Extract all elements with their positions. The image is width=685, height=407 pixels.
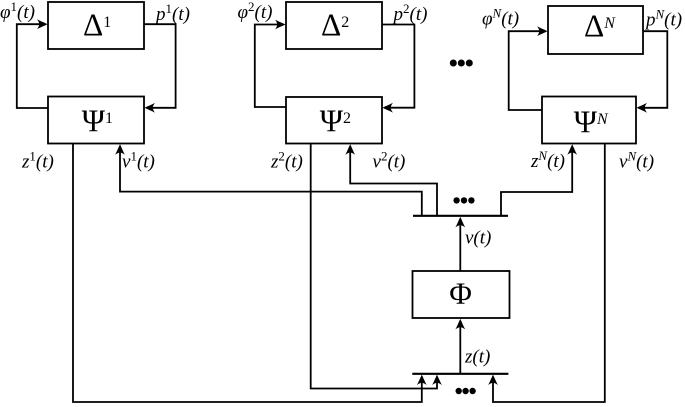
block Phi bbox=[413, 271, 510, 318]
svg-text:φ2(t): φ2(t) bbox=[238, 0, 273, 23]
label phi1(t) bbox=[0, 0, 35, 23]
label Psi1 bbox=[82, 104, 113, 139]
block Psi2 bbox=[286, 97, 382, 144]
label pN(t) bbox=[644, 7, 682, 31]
wire v2 (v-bar leg to Psi2 bottom input) bbox=[350, 150, 437, 216]
wire p1 feedback (Delta1 output to Psi1 right) bbox=[144, 24, 176, 108]
svg-text:v(t): v(t) bbox=[465, 228, 491, 249]
dots above v-bar bbox=[453, 197, 474, 203]
svg-text:Φ: Φ bbox=[449, 275, 472, 310]
arrowhead into DeltaN bbox=[537, 26, 548, 36]
arrowhead z2 into z-bus bbox=[432, 375, 442, 386]
label Delta1 bbox=[83, 8, 111, 43]
wire v(t) (Phi output up to v-bar) bbox=[459, 223, 461, 271]
wire p2 feedback (Delta2 output to Psi2 right) bbox=[382, 25, 414, 108]
arrowhead zN into z-bus bbox=[488, 375, 498, 386]
arrowhead into Delta1 bbox=[37, 19, 48, 29]
arrowhead into Psi2 right bbox=[383, 103, 394, 113]
arrowhead vN into PsiN bottom bbox=[567, 144, 577, 155]
svg-text:v1(t): v1(t) bbox=[122, 149, 155, 173]
label Psi2 bbox=[320, 104, 351, 139]
wire z1 (Psi1 output down and right to z-bus) bbox=[73, 144, 422, 403]
label phi2(t) bbox=[238, 0, 273, 23]
label zN(t) bbox=[530, 148, 565, 172]
arrowhead z1 into z-bus bbox=[417, 375, 427, 386]
svg-text:p1(t): p1(t) bbox=[154, 1, 190, 25]
label v(t) bbox=[465, 228, 491, 249]
wire phi1 feedback (Psi1 left to Delta1 input) bbox=[17, 24, 48, 108]
dots between group2 and groupN bbox=[450, 60, 473, 67]
arrowhead into PsiN right bbox=[637, 103, 648, 113]
label z1(t) bbox=[21, 149, 54, 173]
label vN(t) bbox=[619, 149, 654, 173]
arrowhead v(t) into v-bar bbox=[455, 217, 465, 228]
svg-text:z1(t): z1(t) bbox=[21, 149, 54, 173]
label Phi bbox=[449, 275, 472, 310]
svg-text:p2(t): p2(t) bbox=[392, 1, 428, 25]
label v1(t) bbox=[122, 149, 155, 173]
block Delta1 bbox=[48, 2, 144, 49]
z collection bus bbox=[412, 373, 508, 375]
wire vN (v-bar right leg to PsiN bottom input) bbox=[501, 150, 572, 216]
wire zN (PsiN output down and left to z-bus) bbox=[493, 144, 605, 403]
label z(t) bbox=[464, 347, 490, 368]
label DeltaN bbox=[584, 9, 616, 44]
arrowhead v1 into Psi1 bottom bbox=[115, 144, 125, 155]
arrowhead v2 into Psi2 bottom bbox=[345, 144, 355, 155]
label PsiN bbox=[574, 105, 609, 140]
label z2(t) bbox=[270, 149, 303, 173]
arrowhead z(t) into Phi bbox=[455, 319, 465, 330]
wire phi2 feedback (Psi2 left to Delta2 input) bbox=[255, 25, 286, 108]
svg-text:z2(t): z2(t) bbox=[270, 149, 303, 173]
wire pN feedback (DeltaN output to PsiN right) bbox=[643, 31, 667, 108]
wire phiN feedback (PsiN left to DeltaN input) bbox=[509, 31, 542, 110]
label v2(t) bbox=[373, 149, 406, 173]
svg-text:z(t): z(t) bbox=[464, 347, 490, 368]
label phiN(t) bbox=[482, 6, 519, 30]
wire z2 (Psi2 output down and right to z-bus) bbox=[311, 144, 437, 389]
svg-text:φN(t): φN(t) bbox=[482, 6, 519, 30]
label Delta2 bbox=[321, 8, 349, 43]
label p1(t) bbox=[154, 1, 190, 25]
dots below z-bus bbox=[456, 388, 476, 394]
label p2(t) bbox=[392, 1, 428, 25]
block Delta2 bbox=[286, 2, 382, 49]
block Psi1 bbox=[48, 97, 144, 144]
arrowhead into Delta2 bbox=[275, 20, 286, 30]
block PsiN bbox=[542, 97, 636, 144]
svg-text:φ1(t): φ1(t) bbox=[0, 0, 35, 23]
svg-text:zN(t): zN(t) bbox=[530, 148, 565, 172]
v distribution bar bbox=[413, 215, 508, 217]
wire z(t) (z-bus up to Phi input) bbox=[459, 325, 461, 374]
svg-text:vN(t): vN(t) bbox=[619, 149, 654, 173]
arrowhead into Psi1 right bbox=[145, 103, 156, 113]
wire v1 (v-bar left leg to Psi1 bottom input) bbox=[120, 150, 422, 216]
svg-text:v2(t): v2(t) bbox=[373, 149, 406, 173]
block DeltaN bbox=[548, 6, 643, 54]
